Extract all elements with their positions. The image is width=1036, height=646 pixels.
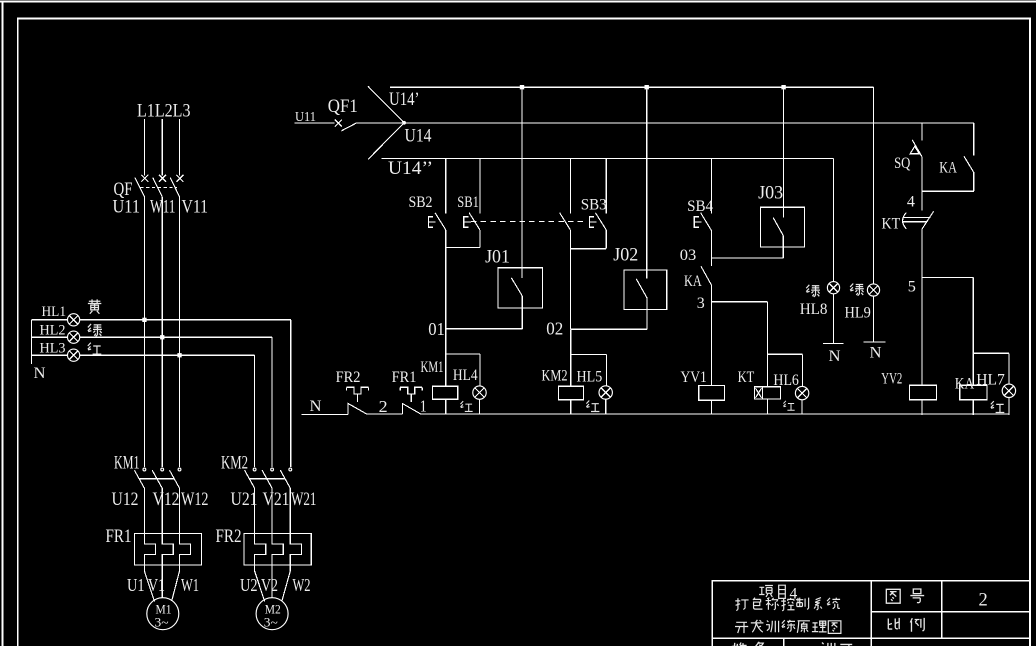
coil YV2 branch [910,278,937,415]
title line3 开发训练原理图 [735,620,841,634]
svg-text:HL6: HL6 [773,371,799,389]
title block divider v2 [941,581,943,639]
svg-text:J02: J02 [613,246,638,266]
lamp HL9 branch [864,87,886,342]
lamp HL1 [68,314,80,326]
junction rail U14' / J02 feeder [645,85,649,89]
label 绿 HL9 [850,284,864,296]
junction on phase W11 [160,335,164,339]
label 红 HL4 [460,401,472,411]
lamp HL7 branch [1002,353,1015,415]
svg-text:HL8: HL8 [800,300,828,318]
svg-text:U14’: U14’ [389,89,420,110]
svg-text:V12: V12 [153,490,180,510]
svg-text:3~: 3~ [264,616,278,630]
svg-text:02: 02 [546,319,563,339]
thermal relay FR1 [134,533,201,565]
svg-text:U11: U11 [113,198,141,218]
wire 5 [922,277,973,279]
time contact KT [903,211,934,277]
title block bottom row verticals (cut) [712,638,783,646]
svg-text:03: 03 [680,246,697,264]
rail U14'' [382,158,834,160]
lamp HL3 [68,349,80,361]
svg-text:U14: U14 [405,126,432,147]
wire 03 [711,257,783,259]
svg-text:SQ: SQ [894,154,911,172]
thermal relay FR2 [244,533,311,565]
wire HL1 row [32,319,291,321]
svg-text:HL1: HL1 [42,304,67,320]
svg-text:1: 1 [420,397,427,416]
phase wire U11 [143,197,145,467]
coil KT branch [755,302,803,415]
coil YV1 branch [699,302,725,415]
svg-text:FR2: FR2 [336,368,361,386]
contact KA (in SB4 branch) [701,258,711,302]
svg-text:2: 2 [979,591,988,611]
svg-text:HL9: HL9 [845,304,871,322]
coil KM1 branch [433,329,481,415]
svg-text:HL4: HL4 [453,366,478,384]
svg-text:V11: V11 [182,198,209,218]
svg-text:W11: W11 [150,198,176,218]
bottom cut row 姓名 [732,642,748,646]
svg-text:KA: KA [684,272,702,290]
svg-text:QF1: QF1 [328,97,358,117]
svg-text:SB3: SB3 [581,196,607,214]
wire HL3 row [32,354,255,356]
svg-text:HL5: HL5 [577,368,603,386]
SB3 jog wire [570,248,606,250]
svg-text:KM1: KM1 [421,358,444,376]
node U14 [402,121,406,125]
feeder diagonal to U14'' [368,123,404,160]
linkage dashes SB1-SB3 [471,221,587,223]
outer border top [0,1,1036,3]
svg-text:KT: KT [738,368,755,386]
svg-text:SB1: SB1 [457,193,479,211]
svg-text:N: N [870,344,882,362]
lamp HL4 branch [473,354,486,415]
pushbutton SB4 [694,159,711,258]
coil KM2 branch [559,329,607,414]
svg-text:U21: U21 [231,490,258,510]
svg-text:V1: V1 [148,575,165,595]
svg-text:HL2: HL2 [40,323,66,339]
svg-text:W2: W2 [293,575,311,595]
relay contact J02 [624,89,667,329]
svg-text:HL3: HL3 [40,340,66,356]
outer border left [2,2,4,646]
svg-text:5: 5 [908,278,916,296]
lamp HL8 branch [823,159,844,344]
svg-text:W12: W12 [181,490,209,510]
svg-text:U11: U11 [295,109,316,124]
overload contact FR1 [400,387,422,414]
svg-text:N: N [34,364,46,382]
wire to KM2 pole2 [271,337,273,467]
N bus for lamps [31,320,33,364]
label 绿 HL2 [88,324,102,336]
svg-text:2: 2 [379,397,388,416]
title block divider v1 [870,581,872,646]
breaker QF x-marks [141,175,183,182]
motor M1 leads [144,565,179,601]
pushbutton SB3 left contact [560,159,571,329]
relay contact J03 [761,89,805,258]
wire to KM2 pole1 [254,355,256,467]
cell 比例 [888,618,899,629]
breaker QF blades [135,178,180,197]
cell 图号 [886,589,900,603]
junction rail U14' / J03 feeder [781,85,785,89]
svg-text:FR2: FR2 [216,527,242,547]
svg-text:KA: KA [955,375,975,393]
contact KA (top right) [964,123,974,191]
junction on phase V11 [177,353,181,357]
svg-text:M1: M1 [156,603,172,617]
svg-text:J03: J03 [758,184,783,204]
label 红 HL7 [991,401,1005,412]
wire U11 feed [295,122,335,124]
svg-text:KM2: KM2 [542,367,568,385]
breaker QF linkage (dashed) [140,186,176,188]
phase wire V11 [179,197,181,467]
feeder diagonal to U14' [368,86,404,123]
svg-text:KM2: KM2 [221,454,248,474]
junction on phase U11 [142,318,146,322]
svg-text:01: 01 [428,319,445,339]
lamp HL2 [68,331,80,343]
SB2/SB1 jog wire [446,247,480,249]
bottom cut row partial name [821,642,835,646]
svg-text:KM1: KM1 [114,454,140,474]
svg-text:YV2: YV2 [881,370,902,388]
svg-text:W21: W21 [291,490,317,510]
limit switch SQ [910,123,922,210]
svg-text:N: N [829,347,841,365]
svg-text:U2: U2 [240,575,258,595]
contactor KM2 [245,468,292,533]
svg-text:KA: KA [939,159,957,177]
pushbutton SB2 [429,159,446,248]
motor M2 [256,598,288,630]
motor M2 leads [255,565,291,601]
svg-text:4: 4 [907,193,915,211]
relay contact J01 [498,89,542,328]
pushbutton SB3 right contact [589,159,606,249]
label 红 HL6 [783,401,794,411]
svg-text:SB4: SB4 [687,197,713,215]
svg-text:3~: 3~ [155,616,169,630]
motor M1 [147,598,179,630]
overload contact FR2 [346,387,368,414]
coil KA branch [960,278,1009,415]
title block mid row line [871,611,1030,613]
junction rail U14' / J01 feeder [520,85,524,89]
contactor KM1 [134,468,181,533]
wire 01 [446,328,523,330]
wire HL2 row [32,336,272,338]
wire 3 [711,301,767,303]
svg-text:SB2: SB2 [409,193,433,211]
lamp HL6 branch [795,354,808,414]
SQ/KA merge wire [922,190,974,192]
svg-text:J01: J01 [485,248,510,268]
svg-text:U12: U12 [112,490,139,510]
wire SB2 to 01 [445,248,447,329]
pushbutton SB1 [464,159,480,248]
lamp HL5 branch [599,355,612,415]
title line2 打包称控制系统 [735,598,840,611]
svg-text:U1: U1 [127,575,145,595]
svg-text:V21: V21 [263,490,290,510]
rail U14' [390,86,874,88]
wire 02 [570,328,647,330]
label 红 HL3 [88,343,102,354]
svg-text:M2: M2 [265,603,281,617]
title 项目4 [759,586,773,597]
svg-text:N: N [310,397,322,415]
bottom rail N [302,413,1009,416]
breaker QF1 [335,120,404,131]
svg-text:L1L2L3: L1L2L3 [137,101,191,122]
phase wire W11 [161,197,163,467]
label 黄 [88,299,101,313]
wire to KM2 pole3 [290,320,292,467]
svg-text:HL7: HL7 [976,371,1005,389]
svg-text:U14’’: U14’’ [388,158,433,179]
label 红 HL5 [586,400,599,411]
svg-text:V2: V2 [261,575,278,595]
svg-text:3: 3 [697,294,705,312]
rail U14 [404,122,974,124]
svg-text:YV1: YV1 [681,368,707,386]
svg-text:KT: KT [882,215,901,233]
title block outline [712,581,1030,639]
label 绿 HL8 [806,285,820,297]
svg-text:FR1: FR1 [392,368,417,386]
title block [712,581,1030,646]
svg-text:W1: W1 [181,575,199,595]
L1 L2 L3 incoming leads [144,119,179,176]
svg-text:FR1: FR1 [106,527,132,547]
